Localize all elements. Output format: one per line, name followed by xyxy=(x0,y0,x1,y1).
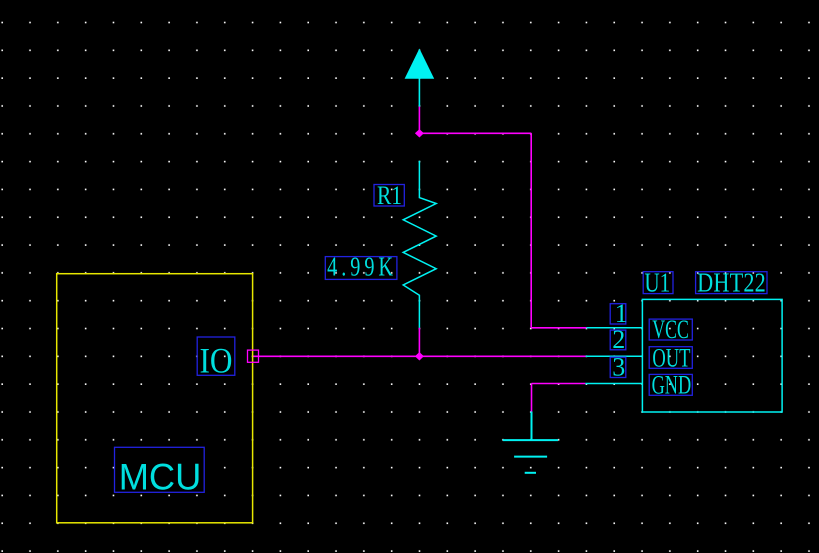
label U1 xyxy=(643,268,673,298)
junction dot IO net xyxy=(415,352,424,360)
pin name GND xyxy=(649,370,692,399)
MCU box xyxy=(57,274,253,523)
wire pin 3 horizontal xyxy=(532,383,586,385)
svg-text:U1: U1 xyxy=(644,268,670,298)
pin 1 line xyxy=(586,327,642,329)
wire resistor bottom stub xyxy=(418,328,420,357)
wire right vertical to pin 1 xyxy=(530,133,532,327)
pin number 1 xyxy=(610,299,628,328)
label DHT22 xyxy=(696,268,767,298)
wire IO to pin 2 xyxy=(253,355,586,357)
svg-text:3: 3 xyxy=(612,353,625,382)
wire top horizontal xyxy=(419,132,531,134)
svg-text:IO: IO xyxy=(200,341,233,380)
svg-text:OUT: OUT xyxy=(652,343,690,372)
pin name OUT xyxy=(649,343,692,372)
label 4.99K xyxy=(325,253,397,282)
wire ground vertical xyxy=(531,384,533,412)
label R1 xyxy=(374,182,404,210)
pin name VCC xyxy=(649,315,692,344)
pin number 2 xyxy=(610,325,626,354)
pin number 3 xyxy=(610,353,626,382)
svg-text:1: 1 xyxy=(615,299,628,328)
svg-text:MCU: MCU xyxy=(119,456,202,497)
resistor R1 xyxy=(403,161,436,328)
MCU IO pin pad square xyxy=(248,350,259,362)
wire pin 1 horizontal xyxy=(531,327,586,329)
pin 3 line xyxy=(585,383,642,385)
svg-text:VCC: VCC xyxy=(652,315,689,344)
wire power stub xyxy=(418,107,420,134)
label IO xyxy=(197,337,235,381)
junction dot top xyxy=(415,129,424,137)
label MCU xyxy=(115,447,205,497)
svg-text:2: 2 xyxy=(612,325,625,354)
pin 2 line xyxy=(586,355,643,357)
svg-text:GND: GND xyxy=(652,370,692,399)
svg-text:4.99K: 4.99K xyxy=(327,253,397,282)
power symbol VCC arrow xyxy=(405,49,435,107)
ground symbol xyxy=(503,412,558,473)
svg-text:R1: R1 xyxy=(377,182,402,210)
svg-text:DHT22: DHT22 xyxy=(697,268,766,298)
IC U1 DHT22 box xyxy=(642,299,782,412)
